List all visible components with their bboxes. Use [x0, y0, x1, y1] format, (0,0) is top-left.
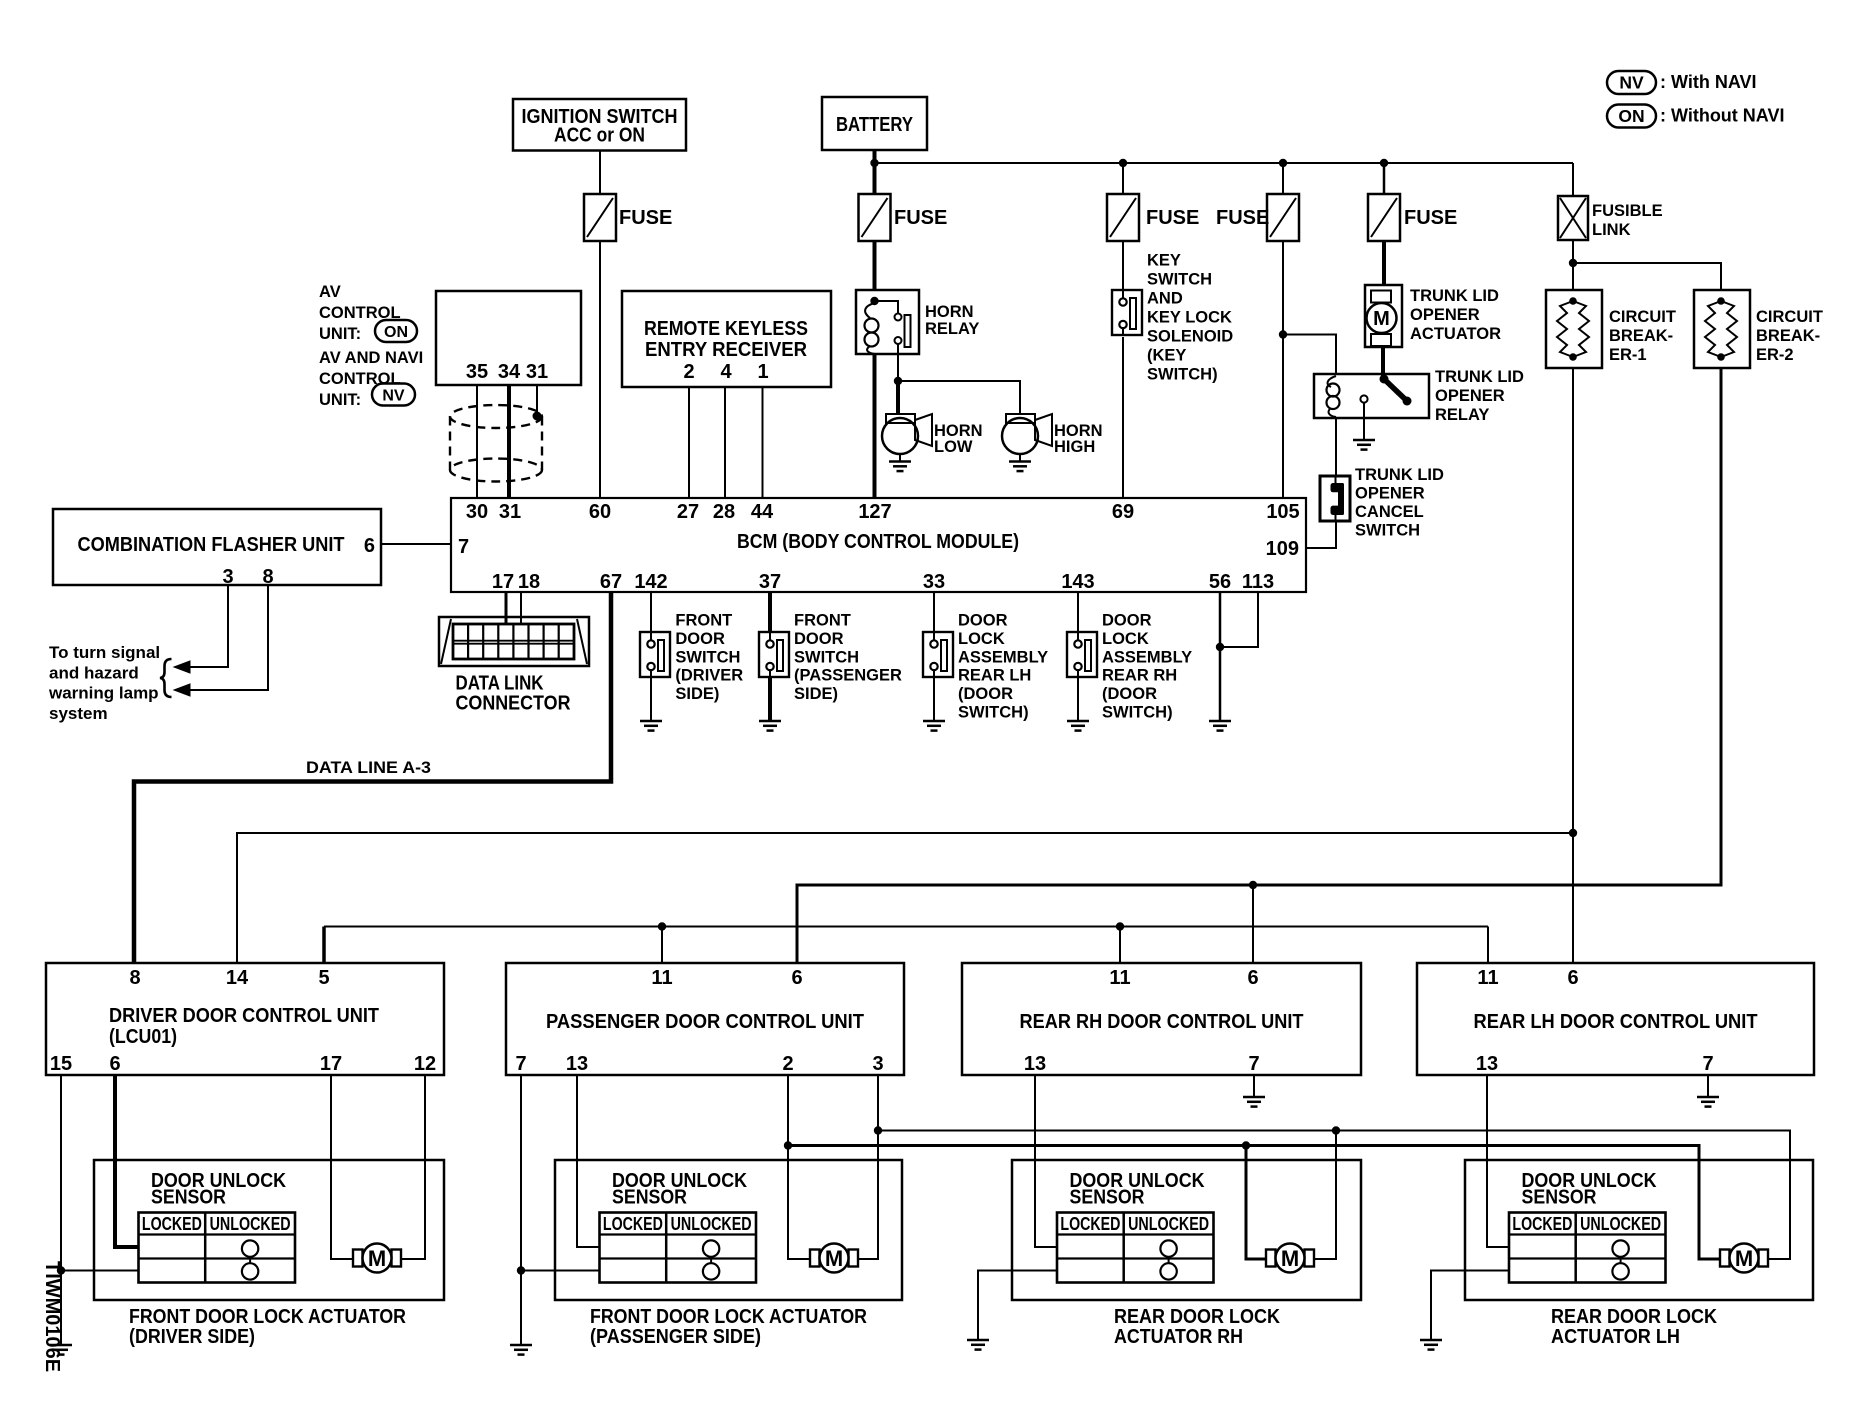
svg-text:142: 142: [634, 571, 667, 593]
wire receiver pin 1 to BCM 44: [762, 387, 764, 498]
svg-text:SENSOR: SENSOR: [151, 1187, 226, 1209]
svg-text:127: 127: [858, 501, 891, 523]
door unlock sensor table at x=1465: [1509, 1213, 1666, 1283]
door lock motor at x=555: [810, 1250, 820, 1267]
node breaker branch: [1569, 259, 1577, 267]
svg-text:COMBINATION FLASHER UNIT: COMBINATION FLASHER UNIT: [78, 534, 345, 556]
svg-text:FUSE: FUSE: [894, 207, 947, 229]
circuit breaker 2 box: [1694, 290, 1750, 368]
svg-text:CONNECTOR: CONNECTOR: [456, 693, 571, 715]
node 56-113 junction: [1216, 643, 1224, 651]
svg-text:11: 11: [1477, 967, 1498, 989]
svg-text:SWITCH): SWITCH): [958, 704, 1029, 722]
wire F5 to trunk actuator: [1382, 241, 1386, 285]
wire door switch to ground at x=934: [933, 677, 935, 721]
svg-text:(DRIVER: (DRIVER: [675, 667, 743, 685]
svg-text:ACTUATOR RH: ACTUATOR RH: [1114, 1326, 1243, 1348]
wire F1 to BCM pin 60: [599, 241, 601, 498]
wire CB2 down and across to passenger pin 6: [797, 368, 1721, 964]
svg-text:NV: NV: [1619, 73, 1644, 93]
svg-text:ACTUATOR: ACTUATOR: [1410, 325, 1501, 343]
fuse F1 (ignition): [584, 194, 616, 241]
svg-text:FRONT DOOR LOCK ACTUATOR: FRONT DOOR LOCK ACTUATOR: [129, 1306, 406, 1328]
ground rear LH actuator: [1420, 1339, 1442, 1342]
ignition switch box: [513, 99, 686, 151]
wire BCM to door switch at x=770: [768, 592, 772, 632]
door lock motor at x=1465: [1720, 1250, 1730, 1267]
svg-text:FRONT: FRONT: [794, 612, 851, 630]
svg-text:SWITCH: SWITCH: [1355, 522, 1420, 540]
ground rear RH pin 7: [1243, 1096, 1265, 1099]
wire trunk relay contact to ground: [1363, 402, 1365, 440]
svg-text:SENSOR: SENSOR: [612, 1187, 687, 1209]
wire down to rear RH pin 6: [1252, 885, 1254, 964]
svg-text:7: 7: [515, 1053, 526, 1075]
node bus at key switch fuse: [1119, 159, 1127, 167]
svg-text:11: 11: [651, 967, 672, 989]
svg-text:LOW: LOW: [934, 438, 973, 456]
svg-text:M: M: [1373, 308, 1390, 330]
svg-text:FRONT DOOR LOCK ACTUATOR: FRONT DOOR LOCK ACTUATOR: [590, 1306, 867, 1328]
actuator box at x=1012: [1012, 1160, 1361, 1300]
svg-text:SIDE): SIDE): [675, 685, 719, 703]
node driver sensor row3: [57, 1266, 65, 1274]
wire rear RH sensor row3 to ground: [978, 1271, 1057, 1341]
circuit breaker 1 box: [1546, 290, 1602, 368]
wire driver pin 5 line to rear pins 11: [322, 927, 326, 965]
ground rear RH actuator: [967, 1339, 989, 1342]
actuator box at x=1465: [1465, 1160, 1813, 1300]
svg-text:SOLENOID: SOLENOID: [1147, 328, 1233, 346]
svg-text:15: 15: [50, 1053, 72, 1075]
svg-text:2: 2: [683, 361, 694, 383]
horn high symbol: [1006, 414, 1035, 423]
ground horn high: [1009, 460, 1031, 463]
svg-text:OPENER: OPENER: [1435, 387, 1505, 405]
actuator box at x=94: [94, 1160, 444, 1300]
svg-text:DOOR: DOOR: [958, 612, 1008, 630]
svg-text:69: 69: [1112, 501, 1134, 523]
legend ON pill: [1607, 105, 1656, 128]
svg-text:28: 28: [713, 501, 735, 523]
svg-text:UNIT:: UNIT:: [319, 325, 361, 343]
ground BCM 56: [1209, 720, 1231, 723]
fuse F3 (key switch): [1107, 194, 1139, 241]
svg-text:7: 7: [458, 536, 469, 558]
wire unlock line (thick) to rear LH motor: [788, 1146, 1721, 1260]
svg-text:6: 6: [1247, 967, 1258, 989]
node CB1 line at y=833: [1569, 829, 1577, 837]
circuit breaker 2 element: [1717, 297, 1725, 305]
trunk lid opener cancel switch box: [1320, 476, 1350, 521]
wire down to rear LH pin 6 from CB1 node: [1572, 833, 1574, 964]
wire down to circuit breaker 1: [1572, 263, 1574, 290]
svg-text:LOCK: LOCK: [1102, 630, 1149, 648]
wire bus to fuse F4: [1282, 163, 1284, 194]
fuse F2 (battery/horn): [859, 194, 891, 241]
node passenger pin 11: [658, 922, 666, 930]
svg-text:M: M: [825, 1246, 843, 1271]
horn relay moving contact: [895, 314, 902, 321]
svg-text:LOCK: LOCK: [958, 630, 1005, 648]
svg-text:TIWM0106E: TIWM0106E: [41, 1261, 63, 1372]
arrow to turn signal (pin 3): [174, 661, 190, 673]
svg-text:BREAK-: BREAK-: [1609, 327, 1673, 345]
svg-text:2: 2: [782, 1053, 793, 1075]
wire driver pin 17 to motor: [331, 1075, 353, 1259]
wire down to rear LH pin 11: [1487, 927, 1489, 965]
wire passenger pin 7 to ground: [520, 1075, 522, 1345]
wire horn relay to BCM pin 127: [873, 354, 877, 498]
wire driver pin 15 to ground: [60, 1075, 62, 1345]
svg-text:FUSIBLE: FUSIBLE: [1592, 202, 1663, 220]
wire passenger pin 3 to motor: [857, 1075, 878, 1259]
wire BCM pin 56 to ground: [1219, 592, 1222, 721]
svg-text:ACC or ON: ACC or ON: [554, 125, 645, 147]
ground horn low: [889, 460, 911, 463]
svg-text:6: 6: [364, 535, 375, 557]
wire receiver pin 4 to BCM 28: [724, 387, 726, 498]
horn relay fixed contact: [895, 337, 902, 344]
wire relay contact to horn node: [897, 344, 899, 381]
svg-text:11: 11: [1109, 967, 1130, 989]
svg-text:5: 5: [318, 967, 329, 989]
svg-text:BREAK-: BREAK-: [1756, 327, 1820, 345]
wire actuator to trunk relay: [1381, 347, 1385, 376]
wire rear RH thick branch to motor: [1246, 1146, 1267, 1260]
wire receiver pin 2 to BCM 27: [688, 387, 690, 498]
svg-text:SWITCH: SWITCH: [1147, 271, 1212, 289]
svg-text:HIGH: HIGH: [1054, 438, 1095, 456]
svg-text:109: 109: [1266, 538, 1299, 560]
svg-text:OPENER: OPENER: [1355, 485, 1425, 503]
ground door switch x=1078: [1067, 720, 1089, 723]
pill NV (AV NAVI): [372, 384, 415, 406]
trunk lid opener relay box: [1314, 374, 1429, 418]
svg-text:CIRCUIT: CIRCUIT: [1756, 308, 1823, 326]
shield cylinder (dashed): [450, 405, 542, 482]
fuse F5 (trunk actuator): [1368, 194, 1400, 241]
svg-text:LOCKED: LOCKED: [603, 1213, 663, 1234]
node bus at fuse F5: [1380, 159, 1388, 167]
svg-text:35: 35: [466, 361, 488, 383]
wire branch to trunk relay coil: [1283, 335, 1336, 375]
wire node to horn low: [896, 381, 900, 415]
svg-text:SWITCH): SWITCH): [1147, 366, 1218, 384]
svg-text:: With NAVI: : With NAVI: [1660, 72, 1757, 92]
node bus at fuse F4: [1279, 159, 1287, 167]
svg-text:TRUNK LID: TRUNK LID: [1355, 466, 1444, 484]
trunk lid opener actuator: [1365, 285, 1402, 347]
door unlock sensor table at x=1012: [1057, 1213, 1214, 1283]
svg-text:ER-2: ER-2: [1756, 346, 1794, 364]
svg-text:7: 7: [1248, 1053, 1259, 1075]
svg-text:DOOR: DOOR: [675, 630, 725, 648]
wire AV pin 31 to shield: [536, 385, 538, 416]
door lock motor at x=94: [353, 1250, 363, 1267]
wire rear LH pin 13 to sensor: [1487, 1075, 1509, 1247]
svg-text:7: 7: [1702, 1053, 1713, 1075]
svg-text:SIDE): SIDE): [794, 685, 838, 703]
svg-text:UNIT:: UNIT:: [319, 391, 361, 409]
driver door control unit box: [46, 963, 444, 1075]
wire door switch to ground at x=1078: [1077, 677, 1079, 721]
svg-text:: Without NAVI: : Without NAVI: [1660, 106, 1784, 126]
svg-text:BCM (BODY CONTROL MODULE): BCM (BODY CONTROL MODULE): [737, 531, 1019, 553]
wire door switch to ground at x=651: [650, 677, 652, 721]
wire down to rear RH pin 11: [1119, 927, 1121, 965]
svg-text:FUSE: FUSE: [619, 207, 672, 229]
svg-text:31: 31: [526, 361, 548, 383]
svg-text:M: M: [368, 1246, 386, 1271]
svg-text:UNLOCKED: UNLOCKED: [1128, 1213, 1209, 1234]
wire bus horizontal: [875, 162, 1574, 164]
trunk relay contact circle: [1360, 395, 1367, 402]
svg-text:60: 60: [589, 501, 611, 523]
svg-text:105: 105: [1266, 501, 1299, 523]
svg-text:3: 3: [872, 1053, 883, 1075]
svg-text:LOCKED: LOCKED: [1060, 1213, 1120, 1234]
wire BCM pin 113 join: [1220, 592, 1258, 647]
svg-text:ACTUATOR LH: ACTUATOR LH: [1551, 1326, 1680, 1348]
door unlock sensor table at x=555: [600, 1213, 757, 1283]
horn low ground wire: [899, 454, 901, 462]
wire down to passenger pin 11: [661, 927, 663, 965]
horn relay coil: [865, 303, 874, 318]
wire CB1 down to rear LH pin 6: [1572, 368, 1574, 964]
wire F3 to key switch: [1122, 241, 1124, 290]
wire key switch to BCM pin 69: [1122, 337, 1124, 498]
svg-text:30: 30: [466, 501, 488, 523]
svg-text:14: 14: [226, 967, 249, 989]
wire rear RH pin 13 to sensor: [1035, 1075, 1057, 1247]
svg-text:REAR LH DOOR CONTROL UNIT: REAR LH DOOR CONTROL UNIT: [1474, 1011, 1758, 1033]
wire BCM pin 18 to data link connector: [520, 592, 522, 624]
ground door switch x=770: [759, 720, 781, 723]
svg-text:(PASSENGER: (PASSENGER: [794, 667, 902, 685]
wire passenger pin 13 to sensor: [577, 1075, 600, 1247]
svg-text:LINK: LINK: [1592, 221, 1631, 239]
wire battery to bus junction: [873, 149, 877, 194]
svg-text:(KEY: (KEY: [1147, 347, 1186, 365]
door unlock sensor table at x=94: [139, 1213, 296, 1283]
pill ON (AV): [375, 320, 417, 342]
wire rear LH pin 7 to ground: [1707, 1075, 1709, 1097]
door switch symbol at x=651: [640, 632, 670, 677]
wire driver pin 14 to CB1 line: [237, 833, 1573, 964]
svg-text:SENSOR: SENSOR: [1070, 1187, 1145, 1209]
svg-text:34: 34: [498, 361, 521, 383]
svg-text:CONTROL: CONTROL: [319, 370, 401, 388]
svg-text:FUSE: FUSE: [1146, 207, 1199, 229]
svg-text:REAR RH: REAR RH: [1102, 667, 1177, 685]
wire F4 down to BCM pin 105: [1282, 241, 1284, 498]
svg-text:17: 17: [492, 571, 514, 593]
wire AV pin 34 to BCM pin 31: [507, 385, 511, 498]
svg-text:REAR DOOR LOCK: REAR DOOR LOCK: [1114, 1306, 1280, 1328]
svg-text:UNLOCKED: UNLOCKED: [671, 1213, 752, 1234]
svg-text:(PASSENGER SIDE): (PASSENGER SIDE): [590, 1326, 761, 1348]
node rear RH thick branch: [1242, 1141, 1250, 1149]
legend NV pill: [1607, 71, 1656, 94]
svg-text:BATTERY: BATTERY: [836, 114, 914, 136]
svg-text:DATA LINK: DATA LINK: [456, 673, 544, 695]
svg-text:ASSEMBLY: ASSEMBLY: [958, 648, 1048, 666]
svg-text:DOOR: DOOR: [1102, 612, 1152, 630]
svg-text:(LCU01): (LCU01): [109, 1026, 177, 1048]
svg-text:M: M: [1735, 1246, 1753, 1271]
svg-text:33: 33: [923, 571, 945, 593]
BCM (body control module) box: [451, 498, 1306, 592]
svg-text:6: 6: [791, 967, 802, 989]
svg-text:6: 6: [1567, 967, 1578, 989]
wire rear RH pin 7 to ground: [1253, 1075, 1255, 1097]
wire rear RH thin branch to motor: [1313, 1131, 1336, 1260]
wire fusible link to breakers: [1572, 240, 1574, 263]
wire cancel switch to BCM pin 109: [1306, 521, 1336, 548]
data link connector symbol: [439, 617, 589, 666]
svg-text:UNLOCKED: UNLOCKED: [1580, 1213, 1661, 1234]
svg-text:warning lamp: warning lamp: [48, 684, 159, 703]
wire bus to fuse F3: [1122, 163, 1124, 194]
svg-text:ON: ON: [384, 324, 408, 341]
node battery bus: [870, 159, 878, 167]
node rear RH pin 6 on CB2 line: [1249, 881, 1257, 889]
wire passenger row3 to sensor table: [521, 1270, 600, 1272]
svg-text:17: 17: [320, 1053, 342, 1075]
fuse F4 (BCM 105): [1267, 194, 1299, 241]
svg-text:(DOOR: (DOOR: [958, 685, 1013, 703]
AV control unit box: [436, 291, 581, 385]
rear rh door control unit box: [962, 963, 1361, 1075]
svg-text:67: 67: [600, 571, 622, 593]
wire driver pin 12 to motor: [401, 1075, 425, 1259]
svg-text:(DOOR: (DOOR: [1102, 685, 1157, 703]
svg-text:KEY: KEY: [1147, 252, 1181, 270]
wire driver row3 to sensor table: [61, 1270, 139, 1272]
brace for turn signal arrows: [160, 659, 172, 697]
ground door switch x=651: [640, 720, 662, 723]
svg-text:113: 113: [1242, 571, 1274, 593]
wire trunk relay coil to cancel switch: [1335, 418, 1337, 476]
node shield connection: [533, 412, 542, 421]
svg-text:8: 8: [262, 566, 273, 588]
svg-text:13: 13: [1024, 1053, 1046, 1075]
ground passenger pin 7: [510, 1344, 532, 1347]
horn relay contact wire: [875, 301, 899, 314]
wire F2 to horn relay: [873, 241, 877, 290]
ground rear LH pin 7: [1697, 1096, 1719, 1099]
svg-text:13: 13: [566, 1053, 588, 1075]
passenger door control unit box: [506, 963, 904, 1075]
svg-text:AV AND NAVI: AV AND NAVI: [319, 349, 423, 367]
svg-text:31: 31: [499, 501, 521, 523]
svg-text:143: 143: [1061, 571, 1094, 593]
svg-text:DATA LINE A-3: DATA LINE A-3: [306, 758, 431, 777]
svg-text:KEY LOCK: KEY LOCK: [1147, 309, 1232, 327]
svg-text:ER-1: ER-1: [1609, 346, 1647, 364]
node passenger pin 2 branch: [784, 1141, 792, 1149]
svg-text:TRUNK LID: TRUNK LID: [1410, 287, 1499, 305]
svg-text:1: 1: [757, 361, 768, 383]
svg-text:REAR RH DOOR CONTROL UNIT: REAR RH DOOR CONTROL UNIT: [1020, 1011, 1304, 1033]
arrow to hazard (pin 8): [174, 684, 190, 696]
wire branch to circuit breaker 2: [1573, 263, 1721, 290]
horn high ground wire: [1019, 454, 1021, 462]
node rear RH pin 11: [1116, 922, 1124, 930]
svg-text:SWITCH: SWITCH: [794, 648, 859, 666]
horn relay contact bar: [905, 315, 911, 347]
wire BCM to door switch at x=1078: [1077, 592, 1079, 632]
combination flasher unit box: [53, 509, 381, 585]
svg-text:CIRCUIT: CIRCUIT: [1609, 308, 1676, 326]
door lock motor at x=1012: [1266, 1250, 1276, 1267]
wire AV pin 35 to BCM pin 30: [476, 385, 478, 498]
node horn branch: [894, 377, 902, 385]
svg-text:SWITCH: SWITCH: [675, 648, 740, 666]
remote keyless entry receiver box: [622, 291, 831, 387]
svg-text:TRUNK LID: TRUNK LID: [1435, 368, 1524, 386]
svg-text:NV: NV: [382, 388, 405, 405]
svg-text:HORN: HORN: [925, 303, 974, 321]
svg-text:12: 12: [414, 1053, 436, 1075]
cancel switch contact symbol: [1335, 476, 1337, 484]
svg-text:FUSE: FUSE: [1216, 207, 1269, 229]
wire node to horn high: [898, 381, 1020, 415]
svg-text:LOCKED: LOCKED: [1512, 1213, 1572, 1234]
wire BCM to door switch at x=934: [933, 592, 935, 632]
wire flasher pin 3 to turn signal arrow: [189, 585, 228, 667]
svg-text:DRIVER DOOR CONTROL UNIT: DRIVER DOOR CONTROL UNIT: [109, 1005, 379, 1027]
svg-text:SWITCH): SWITCH): [1102, 704, 1173, 722]
svg-text:ENTRY RECEIVER: ENTRY RECEIVER: [645, 339, 808, 361]
node rear RH thin branch: [1332, 1126, 1340, 1134]
wire rear LH sensor row3 to ground: [1431, 1271, 1509, 1341]
rear lh door control unit box: [1417, 963, 1814, 1075]
ground trunk relay: [1353, 439, 1375, 442]
ground door switch x=934: [923, 720, 945, 723]
wire flasher pin 8 to hazard arrow: [189, 585, 268, 690]
ground driver pin 15: [50, 1344, 72, 1347]
key switch and key lock solenoid symbol: [1112, 290, 1142, 335]
svg-text:LOCKED: LOCKED: [142, 1213, 202, 1234]
wire flasher pin 6 to BCM pin 7: [381, 543, 451, 545]
circuit breaker 1 element: [1569, 297, 1577, 305]
svg-text:DOOR: DOOR: [794, 630, 844, 648]
svg-text:RELAY: RELAY: [1435, 406, 1489, 424]
wire door switch to ground at x=770: [768, 677, 772, 721]
actuator box at x=555: [555, 1160, 902, 1300]
trunk relay coil: [1328, 376, 1336, 387]
svg-text:To turn signal: To turn signal: [49, 643, 160, 662]
svg-text:RELAY: RELAY: [925, 320, 979, 338]
svg-text:3: 3: [222, 566, 233, 588]
fusible link: [1558, 196, 1588, 240]
door switch symbol at x=1078: [1067, 632, 1097, 677]
svg-text:ON: ON: [1618, 106, 1644, 126]
svg-text:PASSENGER DOOR CONTROL UNIT: PASSENGER DOOR CONTROL UNIT: [546, 1011, 864, 1033]
svg-text:REMOTE KEYLESS: REMOTE KEYLESS: [644, 318, 808, 340]
svg-text:6: 6: [109, 1053, 120, 1075]
horn low symbol: [886, 414, 915, 423]
svg-text:(DRIVER SIDE): (DRIVER SIDE): [129, 1326, 255, 1348]
svg-text:SENSOR: SENSOR: [1522, 1187, 1597, 1209]
svg-text:FRONT: FRONT: [675, 612, 732, 630]
svg-text:REAR DOOR LOCK: REAR DOOR LOCK: [1551, 1306, 1717, 1328]
svg-text:system: system: [49, 704, 108, 723]
svg-text:44: 44: [751, 501, 774, 523]
wire passenger pin 2 to motor: [788, 1075, 810, 1259]
